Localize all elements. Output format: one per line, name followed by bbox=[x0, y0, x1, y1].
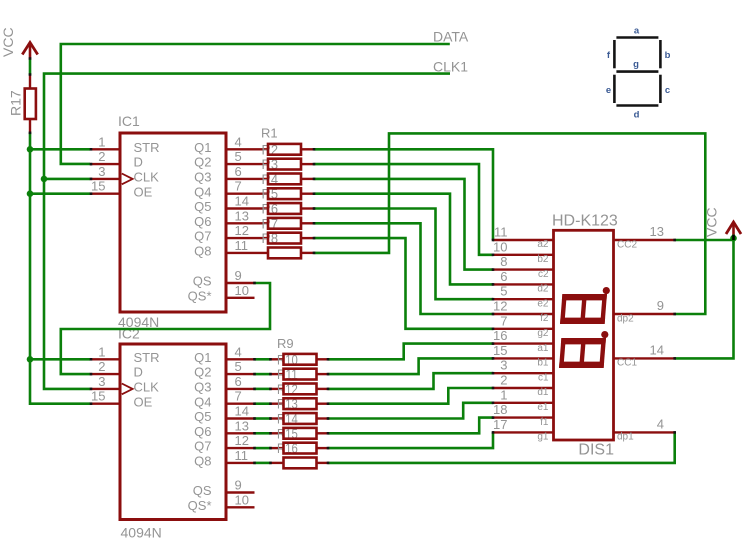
svg-text:VCC: VCC bbox=[704, 207, 720, 237]
svg-text:15: 15 bbox=[91, 179, 105, 194]
svg-text:CC1: CC1 bbox=[617, 358, 637, 369]
svg-text:OE: OE bbox=[134, 184, 153, 199]
svg-text:2: 2 bbox=[500, 373, 507, 388]
svg-text:10: 10 bbox=[493, 239, 507, 254]
svg-text:QS: QS bbox=[193, 274, 212, 289]
svg-text:3: 3 bbox=[500, 358, 507, 373]
svg-text:D: D bbox=[134, 365, 143, 380]
svg-text:6: 6 bbox=[500, 269, 507, 284]
svg-text:7: 7 bbox=[235, 179, 242, 194]
svg-text:c: c bbox=[665, 85, 670, 96]
svg-text:17: 17 bbox=[493, 417, 507, 432]
svg-text:HD-K123: HD-K123 bbox=[552, 213, 618, 230]
svg-text:4: 4 bbox=[657, 416, 664, 431]
svg-text:4: 4 bbox=[235, 134, 242, 149]
svg-text:d2: d2 bbox=[537, 284, 549, 295]
svg-text:c1: c1 bbox=[538, 372, 549, 383]
svg-text:R17: R17 bbox=[8, 90, 24, 116]
svg-text:3: 3 bbox=[98, 164, 105, 179]
svg-text:5: 5 bbox=[235, 149, 242, 164]
svg-text:1: 1 bbox=[98, 344, 105, 359]
svg-text:11: 11 bbox=[235, 238, 249, 253]
svg-text:Q8: Q8 bbox=[194, 244, 211, 259]
svg-text:f2: f2 bbox=[540, 313, 549, 324]
svg-text:4094N: 4094N bbox=[118, 314, 159, 330]
svg-text:e2: e2 bbox=[537, 298, 549, 309]
svg-text:18: 18 bbox=[493, 402, 507, 417]
svg-text:QS*: QS* bbox=[188, 498, 212, 513]
svg-text:e: e bbox=[606, 85, 611, 96]
svg-text:b: b bbox=[665, 50, 671, 61]
svg-text:13: 13 bbox=[650, 224, 664, 239]
svg-text:Q3: Q3 bbox=[194, 170, 211, 185]
svg-text:13: 13 bbox=[235, 418, 249, 433]
svg-text:Q5: Q5 bbox=[194, 409, 211, 424]
svg-text:13: 13 bbox=[235, 208, 249, 223]
svg-text:a2: a2 bbox=[537, 239, 549, 250]
svg-text:1: 1 bbox=[500, 387, 507, 402]
svg-text:R9: R9 bbox=[277, 336, 294, 351]
svg-text:Q4: Q4 bbox=[194, 394, 211, 409]
svg-text:b2: b2 bbox=[537, 254, 549, 265]
svg-text:R1: R1 bbox=[261, 126, 278, 141]
svg-text:11: 11 bbox=[494, 225, 508, 240]
svg-text:4094N: 4094N bbox=[121, 525, 162, 541]
svg-text:7: 7 bbox=[235, 389, 242, 404]
svg-text:QS: QS bbox=[193, 483, 212, 498]
svg-text:15: 15 bbox=[91, 389, 105, 404]
svg-text:OE: OE bbox=[134, 394, 153, 409]
svg-text:10: 10 bbox=[235, 492, 249, 507]
svg-text:5: 5 bbox=[500, 284, 507, 299]
svg-text:CC2: CC2 bbox=[617, 239, 637, 250]
svg-text:Q6: Q6 bbox=[194, 214, 211, 229]
svg-text:DATA: DATA bbox=[433, 29, 469, 45]
svg-text:8: 8 bbox=[500, 254, 507, 269]
svg-text:a: a bbox=[634, 26, 640, 37]
svg-text:2: 2 bbox=[98, 359, 105, 374]
svg-text:2: 2 bbox=[98, 149, 105, 164]
svg-text:Q5: Q5 bbox=[194, 199, 211, 214]
svg-text:DIS1: DIS1 bbox=[578, 442, 614, 459]
svg-text:14: 14 bbox=[235, 404, 249, 419]
svg-text:e1: e1 bbox=[537, 402, 549, 413]
svg-text:9: 9 bbox=[235, 478, 242, 493]
svg-text:Q7: Q7 bbox=[194, 439, 211, 454]
svg-text:Q2: Q2 bbox=[194, 365, 211, 380]
svg-text:CLK: CLK bbox=[134, 380, 160, 395]
svg-text:4: 4 bbox=[235, 344, 242, 359]
svg-text:STR: STR bbox=[134, 140, 160, 155]
svg-text:g2: g2 bbox=[537, 328, 549, 339]
svg-text:Q1: Q1 bbox=[194, 350, 211, 365]
svg-text:6: 6 bbox=[235, 374, 242, 389]
svg-text:9: 9 bbox=[235, 268, 242, 283]
svg-text:11: 11 bbox=[235, 448, 249, 463]
svg-text:d: d bbox=[634, 110, 640, 121]
svg-text:15: 15 bbox=[493, 343, 507, 358]
svg-text:5: 5 bbox=[235, 359, 242, 374]
svg-text:d1: d1 bbox=[537, 387, 549, 398]
svg-text:Q8: Q8 bbox=[194, 454, 211, 469]
svg-text:7: 7 bbox=[500, 313, 507, 328]
svg-text:Q7: Q7 bbox=[194, 229, 211, 244]
svg-text:f1: f1 bbox=[540, 417, 549, 428]
svg-text:g: g bbox=[633, 59, 639, 70]
svg-text:Q6: Q6 bbox=[194, 424, 211, 439]
svg-text:Q3: Q3 bbox=[194, 380, 211, 395]
svg-text:dp1: dp1 bbox=[617, 432, 634, 443]
svg-text:12: 12 bbox=[493, 299, 507, 314]
svg-text:14: 14 bbox=[650, 342, 664, 357]
svg-text:12: 12 bbox=[235, 223, 249, 238]
svg-text:Q1: Q1 bbox=[194, 140, 211, 155]
svg-text:D: D bbox=[134, 155, 143, 170]
svg-text:1: 1 bbox=[98, 134, 105, 149]
svg-text:CLK1: CLK1 bbox=[433, 59, 468, 75]
svg-text:STR: STR bbox=[134, 350, 160, 365]
svg-text:g1: g1 bbox=[537, 432, 549, 443]
svg-text:QS*: QS* bbox=[188, 288, 212, 303]
svg-text:b1: b1 bbox=[537, 358, 549, 369]
svg-text:6: 6 bbox=[235, 164, 242, 179]
svg-text:16: 16 bbox=[493, 328, 507, 343]
svg-text:3: 3 bbox=[98, 374, 105, 389]
svg-text:10: 10 bbox=[235, 283, 249, 298]
svg-text:Q2: Q2 bbox=[194, 155, 211, 170]
svg-text:9: 9 bbox=[657, 298, 664, 313]
svg-text:Q4: Q4 bbox=[194, 184, 211, 199]
svg-text:VCC: VCC bbox=[0, 27, 16, 57]
svg-text:14: 14 bbox=[235, 194, 249, 209]
svg-text:a1: a1 bbox=[537, 343, 549, 354]
svg-text:dp2: dp2 bbox=[617, 313, 634, 324]
svg-text:IC1: IC1 bbox=[118, 113, 140, 129]
svg-text:12: 12 bbox=[235, 433, 249, 448]
svg-text:c2: c2 bbox=[538, 269, 549, 280]
svg-text:CLK: CLK bbox=[134, 170, 160, 185]
